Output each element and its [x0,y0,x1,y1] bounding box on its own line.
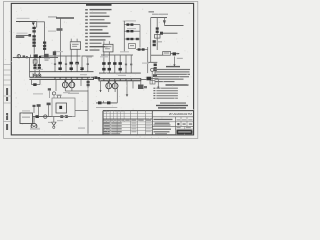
title block outline [103,111,194,135]
feed chain riser 2 [38,58,40,74]
pump N4 [106,83,112,89]
revision table marks [104,110,124,113]
valves on downcomers right [102,62,122,70]
pipe stub T1 [56,17,74,19]
pump labels [33,93,43,94]
pump N2 [69,82,75,88]
riser at manifold start [29,58,31,78]
bottom tick [103,101,105,103]
meter circle right [151,68,154,71]
branch pipe right [160,32,178,35]
valve on bypass loop [33,83,36,86]
field signature 2 [78,127,85,129]
drain header [48,121,56,123]
pump discharge pipes [65,88,88,92]
pipe 2 designation [16,36,24,38]
valve cluster on distribution pipe [34,54,38,58]
upper header right [99,72,141,74]
meter on tank pipe [44,115,47,118]
small field labels [22,20,149,121]
chain pipe junction [136,48,148,50]
manifold junction valves [94,76,100,79]
lit masa headers [177,119,193,120]
junction dot [39,56,41,58]
lower aux line [96,107,117,109]
pipe tank to unit [33,116,73,118]
manifold outlet pipe [141,79,147,81]
lit value [177,123,192,125]
tank inlet stub [33,105,36,113]
small mark below header [45,60,49,61]
aux unit box right [129,44,136,49]
header pipe right [101,54,133,56]
drawing title text [154,119,173,126]
distribution pipe left [13,57,58,59]
valve after box [173,52,177,55]
manifold drops right [127,81,141,97]
bottom riser 1 [116,89,118,103]
bypass loop under manifold [32,79,41,84]
outlet pipe 2 [151,79,159,89]
sheet cells [177,127,191,128]
pump N2 suction [71,79,73,82]
legend rows [85,9,111,51]
meter end box [150,81,155,85]
gauge pair on manifold [33,74,41,77]
title block column lines [107,111,153,135]
metering unit U2 [103,44,113,52]
manifold left drop right subsystem [99,81,101,93]
manifold inlet ticks right [104,79,131,81]
company stamp [176,130,192,135]
drawing frame [11,3,193,135]
downcomers left [66,56,88,72]
bypass pipe right [165,25,184,27]
valve stack right riser [156,27,159,33]
riser elbow cluster [53,51,56,55]
label near enclosure [68,93,79,94]
feed tank [20,113,33,124]
fitting cluster 2 [44,54,49,58]
organization name lines [156,102,188,108]
unit U1 outlet pipes [71,50,77,72]
upper header left [30,71,94,73]
unions on downcomers right [125,64,132,66]
label above supply pipe 2 [17,33,28,34]
flag above enclosure [48,88,51,98]
outlet marks [153,74,157,77]
valves under enclosure [60,115,68,118]
valve chain lower right [153,40,162,46]
pipe label text [48,16,57,17]
unit outlet pipe [75,109,88,111]
svg-text:И7-АС2000-02 ТМ: И7-АС2000-02 ТМ [169,112,192,116]
lower valve chain right [154,64,157,70]
label near drop [177,58,183,59]
left margin rotated labels [6,88,8,130]
bottom pipe [96,102,117,104]
pump N1 [62,82,68,88]
riser junction pipe [147,47,149,73]
strainer on chain 1 [33,60,37,63]
makeup pump N3 suction [33,117,35,124]
pump N5 [112,83,118,89]
label right supply [149,11,169,15]
arrow on riser 2 [126,94,129,96]
drop pipe with arrow [173,57,175,67]
feed riser right [156,18,158,50]
supply pipe 1 [16,21,37,23]
heat unit enclosure [52,98,75,117]
unit U2 inlet ticks [104,41,109,44]
manifold tick [32,73,34,77]
bottom valve 2 [107,101,111,104]
notes subheading [166,84,189,85]
left margin column dividers [4,65,12,122]
unit U2 outlet pipes [104,52,109,73]
regulator box right [155,35,161,39]
valve stack on riser B [43,42,46,50]
extra valve mark [136,38,139,40]
pump N4 suction [108,81,110,84]
supply pipe 2 [16,34,30,36]
reducing valve right [163,18,166,26]
manifold right [99,78,141,81]
reducing valve left [32,22,35,25]
title block signature rows [104,120,151,135]
heat exchanger box [56,103,67,113]
feed riser 2 right [123,21,126,52]
instrument cluster right end [138,85,147,90]
stub pipe lower [148,61,157,63]
pump discharge right [109,89,115,93]
bottom valve 1 [98,101,102,104]
label above supply pipe 1 [17,18,30,19]
pipe jog to riser B [37,22,45,28]
field signature 1 [30,128,40,130]
branch valve chains right [124,23,140,40]
unions on downcomers left [54,63,89,65]
meter on distribution pipe [17,55,20,58]
safety stub 1 [37,104,41,116]
meter above enclosure [52,92,55,98]
riser labels right [120,51,129,52]
drain funnel [52,122,56,128]
makeup pump N3 [31,123,37,129]
valves on downcomers left [58,62,83,70]
riser A [33,26,35,54]
downcomers right [115,55,131,73]
riser fitting marks [57,28,63,31]
notes heading [166,66,180,67]
valve stack on riser A [32,27,35,47]
feed chain riser 1 [34,58,36,74]
document number [169,112,192,116]
branch return riser [139,25,141,48]
title block right grid [152,117,193,135]
notes paragraph [155,69,191,82]
vent tick with flag [153,69,156,76]
title block row lines [103,113,152,130]
metering unit U1 [70,42,80,50]
header pipe left [40,55,94,57]
pump N5 suction [114,81,116,84]
pump N1 suction [64,79,66,82]
riser pair [55,18,60,72]
bottom riser 2 [126,89,128,97]
valves on chain 1 [33,64,36,69]
fitting at pipe 2 end [29,34,32,37]
drain pipe [53,117,55,122]
outer border [4,2,198,139]
valves on chain 2 [38,64,41,69]
legend title [86,4,112,6]
enclosure top ticks [57,95,62,98]
outlet riser to bottom [87,79,89,134]
riser B [44,22,46,54]
heat exchanger core [59,106,62,109]
manifold left [30,77,94,80]
city line box [163,52,171,56]
riser right lower [150,18,152,63]
safety stub 2 [47,103,51,117]
valve at tank outlet [36,115,39,118]
valves on outlet riser [87,81,90,86]
fitting cluster 1 [23,55,28,58]
meter drop pipe [151,71,153,84]
notes list items [153,88,178,99]
pipe through box [151,53,180,56]
manifold inlet ticks left [55,77,88,79]
fitting tick [30,55,32,58]
supply pipe right [151,17,167,19]
scan speckle [5,8,194,139]
drawing subtitle text [153,129,171,135]
manifold drop pipes [56,79,81,91]
unit U1 inlet ticks [71,39,77,42]
outlet valve right [147,77,152,81]
